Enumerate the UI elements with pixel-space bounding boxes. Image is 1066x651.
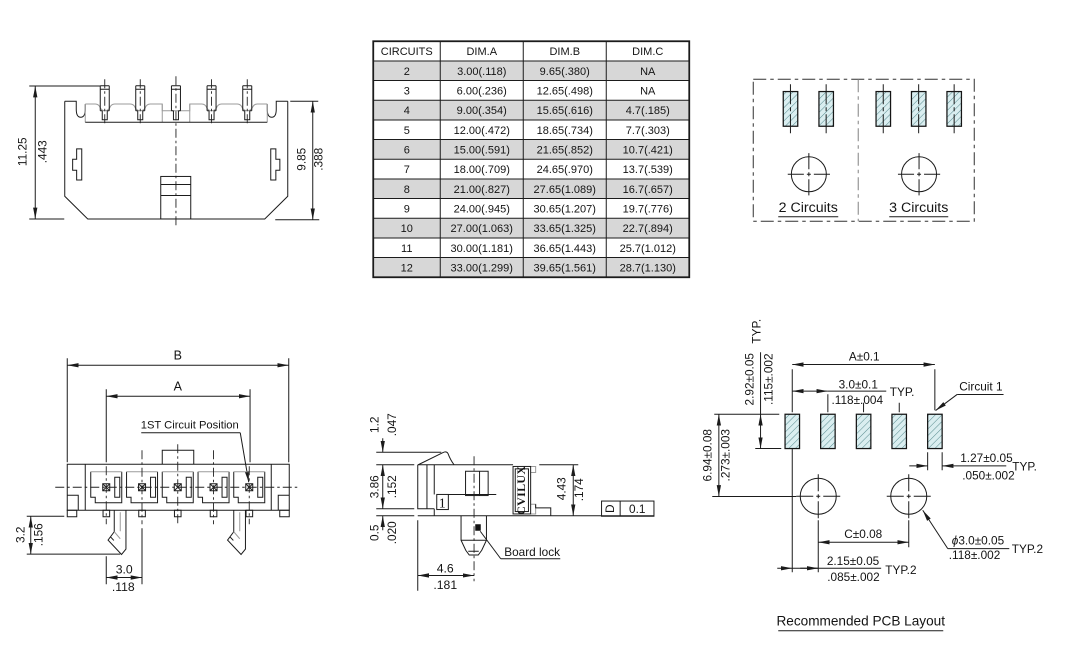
pad 3c-2 — [911, 84, 926, 133]
body outline — [418, 465, 513, 516]
svg-text:.181: .181 — [433, 578, 457, 592]
svg-text:6: 6 — [404, 144, 410, 156]
svg-text:7.7(.303): 7.7(.303) — [626, 125, 670, 137]
svg-text:8: 8 — [404, 184, 410, 196]
svg-text:15.65(.616): 15.65(.616) — [537, 105, 593, 117]
svg-text:9: 9 — [404, 203, 410, 215]
pin centerline — [473, 456, 475, 581]
svg-text:21.00(.827): 21.00(.827) — [454, 184, 510, 196]
dim 2.15 — [777, 449, 916, 584]
body outline — [67, 464, 289, 510]
pad p1 — [785, 414, 800, 448]
dim 4.6 — [418, 520, 474, 592]
svg-text:3 Circuits: 3 Circuits — [889, 200, 948, 216]
pin entry box 1 — [437, 494, 497, 511]
title Recommended PCB Layout — [776, 613, 945, 631]
svg-text:28.7(1.130): 28.7(1.130) — [620, 262, 676, 274]
dim 4.43 — [539, 465, 586, 516]
svg-text:12: 12 — [401, 262, 413, 274]
svg-text:.115±.002: .115±.002 — [761, 353, 775, 405]
pin 4 — [207, 79, 216, 126]
svg-text:.047: .047 — [385, 413, 399, 436]
inner wall — [433, 465, 435, 495]
svg-text:36.65(1.443): 36.65(1.443) — [534, 243, 596, 255]
pin carrier scalloped top (gray) — [85, 104, 267, 122]
cavity 5 — [234, 472, 265, 503]
svg-text:4.6: 4.6 — [437, 561, 454, 575]
svg-text:D: D — [603, 504, 617, 513]
board lock left — [108, 510, 126, 554]
svg-text:1.2: 1.2 — [367, 417, 381, 433]
svg-text:.085±.002: .085±.002 — [827, 570, 879, 584]
svg-text:1ST Circuit Position: 1ST Circuit Position — [141, 419, 239, 431]
board lock side — [461, 516, 486, 555]
label Circuit 1 — [936, 379, 1004, 410]
svg-text:9.65(.380): 9.65(.380) — [540, 66, 590, 78]
table shaded rows — [374, 61, 688, 277]
svg-text:30.65(1.207): 30.65(1.207) — [534, 203, 596, 215]
svg-text:3.2: 3.2 — [13, 527, 27, 543]
dim 3.86 — [367, 465, 414, 509]
center key protrusion — [162, 450, 194, 464]
center channel — [466, 471, 489, 495]
divider line — [857, 79, 859, 221]
pin 5 cross — [246, 484, 253, 491]
svg-text:3.0±0.1: 3.0±0.1 — [839, 377, 878, 391]
svg-text:.156: .156 — [31, 523, 45, 546]
svg-text:Board lock: Board lock — [504, 545, 560, 559]
label 2 Circuits — [778, 200, 838, 217]
svg-text:15.00(.591): 15.00(.591) — [454, 144, 510, 156]
pin 2 cross — [139, 484, 146, 491]
svg-text:0.5: 0.5 — [367, 524, 381, 541]
pad p4 — [892, 414, 907, 448]
cavity 3 — [162, 472, 193, 503]
hole 3c — [898, 153, 940, 195]
hole h2 — [887, 474, 931, 518]
dim 3.0±0.1 — [792, 377, 914, 412]
svg-text:19.7(.776): 19.7(.776) — [623, 203, 673, 215]
svg-text:2: 2 — [404, 66, 410, 78]
pin 5 — [243, 79, 252, 126]
dim B line — [67, 348, 289, 462]
svg-text:.118±.004: .118±.004 — [831, 393, 883, 407]
svg-text:24.65(.970): 24.65(.970) — [537, 164, 593, 176]
horizontal centerline — [55, 486, 300, 488]
svg-text:18.00(.709): 18.00(.709) — [454, 164, 510, 176]
svg-text:10.7(.421): 10.7(.421) — [623, 144, 673, 156]
svg-text:4.43: 4.43 — [554, 477, 568, 500]
svg-text:A±0.1: A±0.1 — [849, 349, 880, 363]
svg-text:ϕ3.0±0.05: ϕ3.0±0.05 — [952, 533, 1005, 547]
right side tab — [271, 149, 280, 180]
board lock right — [228, 510, 246, 554]
svg-text:11.25: 11.25 — [15, 137, 29, 166]
svg-text:DIM.A: DIM.A — [466, 46, 497, 58]
pad p2 — [821, 414, 836, 448]
dim φ3.0 leader — [923, 510, 1043, 562]
svg-text:CIRCUITS: CIRCUITS — [381, 46, 433, 58]
bottom pin tails — [67, 510, 289, 517]
label 3 Circuits — [889, 200, 948, 217]
pin 3 — [171, 86, 180, 120]
svg-text:.388: .388 — [311, 147, 325, 170]
svg-text:21.65(.852): 21.65(.852) — [537, 144, 593, 156]
svg-text:30.00(1.181): 30.00(1.181) — [451, 243, 513, 255]
pad 2c-2 — [819, 84, 834, 133]
pad 3c-1 — [876, 84, 891, 133]
hole 2c — [788, 153, 830, 195]
latch — [418, 452, 454, 465]
svg-text:.273±.003: .273±.003 — [718, 429, 732, 482]
cavity 2 — [127, 472, 158, 503]
svg-text:.152: .152 — [385, 475, 399, 498]
dim 9.85 line — [312, 101, 314, 220]
svg-text:Circuit 1: Circuit 1 — [959, 379, 1002, 393]
svg-text:4.7(.185): 4.7(.185) — [626, 105, 670, 117]
dim 6.94 — [700, 414, 796, 496]
dim 11.25 line — [34, 86, 36, 219]
svg-text:16.7(.657): 16.7(.657) — [623, 184, 673, 196]
svg-text:10: 10 — [401, 223, 413, 235]
pin 1 cross — [103, 484, 110, 491]
svg-text:0.1: 0.1 — [629, 502, 645, 516]
dim 0.5 — [367, 516, 414, 544]
svg-text:5: 5 — [404, 125, 410, 137]
table data rows — [401, 66, 676, 275]
svg-text:4: 4 — [404, 105, 410, 117]
svg-text:.443: .443 — [35, 140, 49, 163]
svg-text:9.00(.354): 9.00(.354) — [457, 105, 507, 117]
table header — [381, 46, 664, 58]
svg-text:.118: .118 — [112, 580, 135, 594]
dim 3.2 — [13, 516, 120, 554]
svg-text:25.7(1.012): 25.7(1.012) — [620, 243, 676, 255]
dim 3.0 — [106, 528, 142, 594]
carrier bottom line — [85, 121, 267, 123]
cavity 4 — [198, 472, 229, 503]
pad 2c-1 — [783, 84, 798, 133]
svg-text:Recommended PCB Layout: Recommended PCB Layout — [776, 613, 945, 628]
pin 1 — [100, 79, 109, 126]
svg-text:3: 3 — [404, 85, 410, 97]
datum frame D 0.1 — [602, 501, 654, 516]
svg-text:TYP.2: TYP.2 — [885, 563, 916, 577]
svg-text:24.00(.945): 24.00(.945) — [454, 203, 510, 215]
svg-text:3.0: 3.0 — [116, 562, 133, 576]
hole h1 — [796, 474, 840, 518]
svg-text:12.65(.498): 12.65(.498) — [537, 85, 593, 97]
pad p3 — [856, 414, 871, 448]
svg-text:.050±.002: .050±.002 — [962, 468, 1014, 482]
dash-dot border box — [753, 79, 974, 221]
svg-text:9.85: 9.85 — [294, 147, 308, 170]
connector body outline — [65, 101, 288, 219]
svg-text:33.65(1.325): 33.65(1.325) — [534, 223, 596, 235]
svg-text:DIM.C: DIM.C — [632, 46, 663, 58]
vertical centerline — [175, 76, 177, 226]
svg-text:C±0.08: C±0.08 — [844, 527, 882, 541]
svg-text:TYP.: TYP. — [1012, 459, 1037, 473]
pin 4 cross — [210, 484, 217, 491]
svg-text:1: 1 — [439, 496, 446, 511]
center bottom block — [161, 176, 191, 219]
svg-text:12.00(.472): 12.00(.472) — [454, 125, 510, 137]
svg-text:3.86: 3.86 — [367, 475, 381, 498]
svg-text:NA: NA — [640, 85, 656, 97]
dim 9.85 extension lines — [290, 100, 318, 102]
end cap inner walls — [67, 464, 289, 510]
svg-text:27.65(1.089): 27.65(1.089) — [534, 184, 596, 196]
svg-text:22.7(.894): 22.7(.894) — [623, 223, 673, 235]
svg-text:TYP.: TYP. — [890, 385, 915, 399]
board lock black mark — [475, 524, 481, 531]
dim 11.25 extension lines — [29, 85, 100, 87]
svg-text:6.00(.236): 6.00(.236) — [457, 85, 507, 97]
svg-text:TYP.: TYP. — [749, 319, 763, 344]
right foot step — [536, 504, 551, 516]
svg-text:CVILUX: CVILUX — [514, 466, 528, 515]
svg-text:1.27±0.05: 1.27±0.05 — [960, 451, 1013, 465]
CVILUX label box — [513, 466, 536, 515]
dim A line — [106, 379, 250, 462]
pcb baseline — [418, 515, 654, 517]
dim A±0.1 — [792, 349, 935, 412]
left side tab — [73, 149, 82, 180]
svg-text:2 Circuits: 2 Circuits — [779, 200, 838, 216]
svg-text:6.94±0.08: 6.94±0.08 — [700, 429, 714, 482]
svg-text:NA: NA — [640, 66, 656, 78]
svg-text:7: 7 — [404, 164, 410, 176]
pin vertical centerlines — [106, 444, 249, 524]
svg-text:B: B — [174, 348, 182, 362]
pad p5 — [928, 414, 943, 448]
board lock label — [480, 531, 560, 559]
svg-text:33.00(1.299): 33.00(1.299) — [451, 262, 513, 274]
cavity 1 — [91, 472, 122, 503]
svg-text:2.92±0.05: 2.92±0.05 — [742, 353, 756, 406]
svg-text:TYP.2: TYP.2 — [1012, 542, 1043, 556]
svg-text:.020: .020 — [385, 521, 399, 544]
svg-text:A: A — [174, 379, 183, 393]
svg-text:13.7(.539): 13.7(.539) — [623, 164, 673, 176]
dim 1.2 — [367, 413, 441, 464]
label 1ST Circuit Position — [141, 419, 249, 482]
svg-text:39.65(1.561): 39.65(1.561) — [534, 262, 596, 274]
svg-text:18.65(.734): 18.65(.734) — [537, 125, 593, 137]
dim 2.92 — [714, 319, 781, 449]
svg-text:3.00(.118): 3.00(.118) — [457, 66, 506, 78]
pin 3 cross — [174, 484, 181, 491]
svg-text:11: 11 — [401, 243, 412, 255]
svg-text:.118±.002: .118±.002 — [949, 548, 1001, 562]
svg-text:2.15±0.05: 2.15±0.05 — [827, 554, 880, 568]
pin 2 — [136, 79, 145, 126]
table grid — [373, 41, 689, 277]
svg-text:DIM.B: DIM.B — [549, 46, 580, 58]
dim C±0.08 — [818, 520, 909, 547]
pad 3c-3 — [947, 84, 962, 133]
svg-text:27.00(1.063): 27.00(1.063) — [451, 223, 513, 235]
svg-text:.174: .174 — [572, 478, 586, 501]
dim 1.27 — [909, 451, 1037, 483]
